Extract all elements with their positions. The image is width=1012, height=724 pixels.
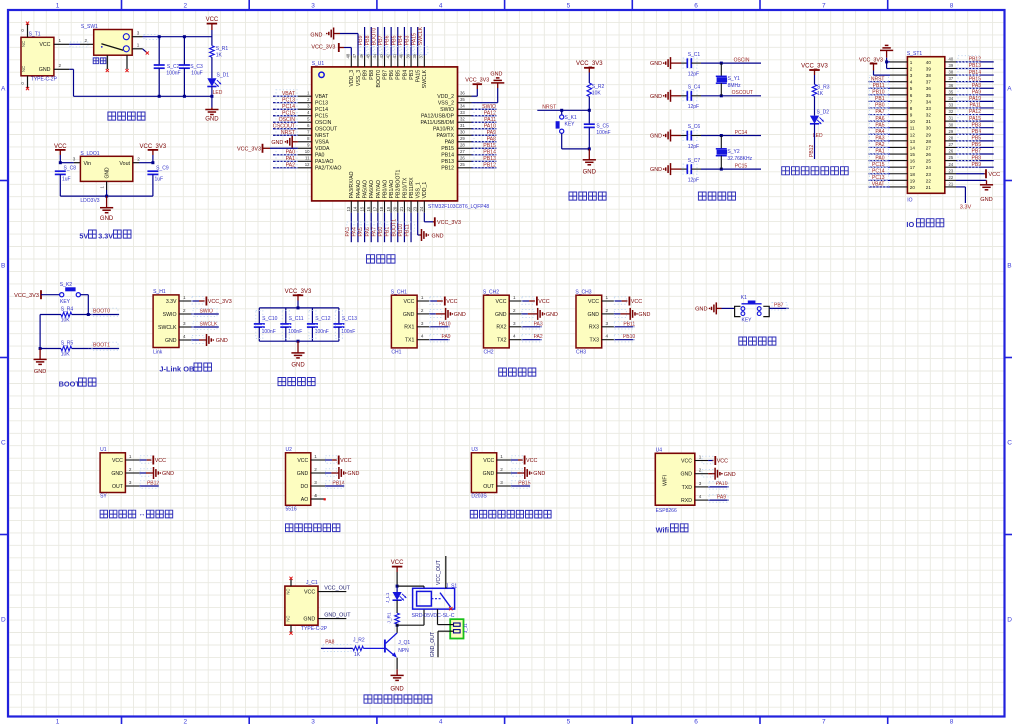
svg-text:GND: GND (104, 167, 110, 179)
svg-text:3: 3 (910, 73, 913, 78)
svg-text:PB7: PB7 (774, 303, 784, 309)
wire T1.VCC to SW1.2 (69, 43, 80, 45)
svg-text:VCC: VCC (526, 458, 537, 464)
svg-text:33: 33 (460, 110, 465, 115)
wire K2 to BOOT0 node (81, 294, 89, 296)
svg-text:TX3: TX3 (589, 338, 599, 344)
svg-text:PB10: PB10 (398, 224, 404, 237)
transistor J_Q1 NPN (384, 640, 386, 653)
svg-text:28: 28 (460, 143, 465, 148)
svg-text:U4: U4 (656, 447, 663, 453)
svg-text:4: 4 (421, 334, 424, 339)
svg-text:GND: GND (271, 140, 283, 146)
power VCC (U2) (325, 459, 332, 461)
svg-text:34: 34 (949, 96, 954, 101)
pin J_C1 top (nc) (290, 579, 292, 586)
svg-text:C: C (1007, 440, 1012, 447)
svg-text:PB1/AO: PB1/AO (389, 180, 395, 199)
filter caps S_C10-S_C13 100nF (258, 308, 260, 324)
svg-text:21: 21 (926, 185, 932, 190)
wire T1.GND to bottom rail (69, 68, 73, 70)
U1 left pins 1-12 stubs and names (298, 95, 312, 97)
svg-text:100nF: 100nF (596, 130, 610, 136)
ground GND (U3) (511, 472, 517, 474)
svg-text:GND: GND (111, 471, 123, 477)
svg-text:2: 2 (183, 3, 187, 10)
svg-text:S_C9: S_C9 (156, 165, 169, 171)
svg-text:14: 14 (353, 206, 358, 211)
svg-text:S_C2: S_C2 (167, 64, 180, 70)
svg-text:3: 3 (311, 3, 315, 10)
svg-text:BOOT1: BOOT1 (391, 219, 397, 237)
ground GND at VSS_1 pin23 (417, 213, 419, 235)
svg-text:S_Y1: S_Y1 (728, 76, 740, 82)
svg-text:B: B (1007, 263, 1011, 270)
module U4 ESP8266 (655, 453, 695, 505)
svg-text:29: 29 (949, 129, 954, 134)
wire L1 to R1 (396, 600, 398, 613)
svg-text:PB7: PB7 (972, 149, 982, 155)
svg-text:NRST: NRST (542, 105, 557, 111)
pin T1 VCC 1 (54, 43, 69, 45)
svg-text:OUT: OUT (112, 484, 124, 490)
wire SWIO (191, 313, 219, 315)
svg-text:11: 11 (305, 156, 310, 161)
svg-text:PA7: PA7 (371, 227, 377, 237)
capacitor S_C4 12pF (681, 95, 687, 97)
svg-text:3: 3 (699, 481, 702, 486)
svg-text:38: 38 (926, 73, 932, 78)
svg-text:S_K2: S_K2 (60, 282, 72, 288)
svg-text:GND: GND (347, 471, 359, 477)
svg-text:SWCLK: SWCLK (200, 321, 218, 327)
svg-text:10K: 10K (61, 351, 71, 357)
ground GND (reset) (588, 147, 591, 150)
svg-text:SWCLK: SWCLK (422, 69, 428, 88)
svg-text:VCC_3V3: VCC_3V3 (285, 289, 312, 295)
svg-text:4: 4 (439, 3, 443, 10)
svg-text:VCC: VCC (483, 458, 494, 464)
key K1 (735, 306, 741, 316)
svg-text:S_CH1: S_CH1 (391, 290, 407, 296)
module U2 (286, 453, 311, 506)
capacitor S_C3 10uF (183, 37, 185, 65)
svg-text:VCC: VCC (39, 42, 50, 48)
svg-text:100nF: 100nF (341, 329, 355, 335)
svg-text:CH2: CH2 (484, 350, 494, 356)
svg-text:GND: GND (680, 472, 692, 478)
wire GND_OUT to J_J1 pin2 (438, 630, 454, 632)
ST1 right net wires (956, 61, 994, 63)
svg-text:21: 21 (949, 182, 954, 187)
svg-text:PB13: PB13 (441, 159, 454, 165)
svg-text:NRST: NRST (315, 133, 330, 139)
svg-text:PA4/AO: PA4/AO (356, 180, 362, 198)
svg-text:PB11: PB11 (405, 224, 411, 236)
capacitor S_C8 1uF (55, 170, 66, 172)
svg-text:7: 7 (822, 3, 826, 10)
svg-text:30: 30 (460, 130, 465, 135)
svg-text:PA2/TX/AO: PA2/TX/AO (315, 166, 341, 172)
ground GND (ST1 pin22) (956, 179, 987, 181)
svg-text:GND: GND (165, 338, 177, 344)
svg-text:VCC_3V3: VCC_3V3 (140, 144, 167, 150)
svg-text:PA8: PA8 (445, 140, 455, 146)
svg-text:24: 24 (419, 206, 424, 211)
svg-text:PA9: PA9 (972, 90, 981, 96)
svg-text:OSCOUT: OSCOUT (732, 90, 753, 96)
svg-text:2: 2 (910, 66, 913, 71)
svg-text:23: 23 (949, 168, 954, 173)
svg-text:PA7/AO: PA7/AO (376, 180, 382, 198)
wire PB7 (769, 307, 788, 309)
wire NRST (537, 109, 589, 111)
capacitor S_C1 12pF (681, 62, 687, 64)
svg-text:22: 22 (949, 175, 954, 180)
svg-text:S_C3: S_C3 (190, 64, 203, 70)
svg-text:26: 26 (460, 156, 465, 161)
svg-text:1: 1 (606, 295, 609, 300)
svg-text:28: 28 (926, 139, 932, 144)
wire GND_OUT (318, 618, 346, 620)
svg-text:36: 36 (460, 91, 465, 96)
svg-text:2: 2 (137, 156, 140, 161)
svg-text:PB1: PB1 (385, 227, 391, 237)
wire PA9 (429, 339, 449, 341)
wire BOOT0 (87, 313, 90, 316)
svg-text:3: 3 (606, 321, 609, 326)
svg-text:KEY: KEY (742, 318, 753, 324)
svg-text:1: 1 (421, 295, 424, 300)
wire OSCOUT (701, 95, 761, 97)
wire VCC rail (143, 36, 212, 38)
svg-text:30: 30 (949, 122, 954, 127)
svg-text:GND_OUT: GND_OUT (430, 631, 436, 657)
svg-text:VCC_3V3: VCC_3V3 (465, 77, 489, 83)
module U3 (471, 453, 496, 493)
svg-text:3: 3 (137, 30, 140, 35)
svg-text:33: 33 (949, 103, 954, 108)
svg-text:2: 2 (500, 467, 503, 472)
svg-text:18: 18 (379, 206, 384, 211)
svg-text:Vin: Vin (84, 161, 92, 167)
svg-text:VCC: VCC (631, 299, 642, 305)
svg-text:PB0: PB0 (378, 227, 384, 237)
svg-text:PC14: PC14 (315, 107, 328, 113)
svg-text:PA12/USB/DP: PA12/USB/DP (421, 114, 455, 120)
svg-text:GND: GND (650, 94, 662, 100)
pin U2 AO 4 (nc) (311, 498, 324, 500)
svg-text:RXD: RXD (681, 498, 692, 504)
resistor S_R1 1K (210, 46, 215, 58)
svg-text:PB7: PB7 (382, 70, 388, 80)
svg-text:KEY: KEY (565, 121, 576, 127)
crystal S_Y1 8MHz (720, 62, 723, 65)
sheet zone ticks and numbers (121, 0, 123, 10)
svg-text:VCC_OUT: VCC_OUT (324, 586, 350, 592)
svg-text:AO: AO (301, 497, 309, 503)
svg-text:PC13: PC13 (315, 101, 328, 107)
svg-text:OSCOUT: OSCOUT (315, 127, 338, 133)
svg-text:PB4: PB4 (402, 70, 408, 80)
svg-text:26: 26 (949, 149, 954, 154)
svg-text:TYPE-C-2P: TYPE-C-2P (31, 77, 58, 83)
svg-text:13: 13 (346, 206, 351, 211)
svg-text:D: D (1007, 617, 1012, 624)
svg-text:SWIO: SWIO (200, 308, 213, 314)
svg-text:J-Link OB: J-Link OB (159, 365, 194, 374)
svg-text:GND: GND (533, 471, 545, 477)
LED S_D1 (207, 78, 216, 86)
svg-text:2: 2 (606, 308, 609, 313)
svg-text:PA6: PA6 (365, 227, 371, 237)
svg-text:Wifi: Wifi (656, 525, 669, 534)
svg-text:VSSA: VSSA (315, 140, 329, 146)
svg-text:VCC_3V3: VCC_3V3 (14, 293, 39, 299)
ground GND (S_CH1) (429, 313, 436, 315)
svg-text:PB9: PB9 (358, 35, 364, 45)
svg-text:17: 17 (910, 165, 916, 170)
svg-text:J_J1: J_J1 (463, 623, 468, 633)
svg-text:GND_OUT: GND_OUT (324, 613, 351, 619)
svg-text:100nF: 100nF (262, 329, 276, 335)
svg-text:VCC: VCC (340, 458, 351, 464)
wire PB11 (614, 326, 634, 328)
pin SW1 1 (nc) (132, 48, 142, 50)
svg-text:25: 25 (926, 159, 932, 164)
ground GND (U2) (325, 472, 331, 474)
svg-text:35: 35 (949, 89, 954, 94)
net 3.3V (ST1 pin21) (956, 186, 965, 188)
svg-text:BOOT0: BOOT0 (371, 28, 377, 46)
svg-text:PB3: PB3 (972, 122, 982, 128)
svg-text:GND: GND (390, 686, 404, 692)
svg-text:↔: ↔ (139, 511, 146, 518)
LED J_L1 (396, 586, 398, 592)
svg-text:12pF: 12pF (688, 178, 699, 184)
connector S_CH3 (576, 295, 602, 348)
svg-text:12: 12 (910, 132, 916, 137)
svg-text:5516: 5516 (286, 507, 297, 513)
svg-text:VCC: VCC (681, 458, 692, 464)
svg-text:1: 1 (137, 43, 140, 48)
svg-text:4: 4 (183, 334, 186, 339)
svg-text:S_R1: S_R1 (216, 46, 229, 52)
svg-text:S_R2: S_R2 (592, 84, 605, 90)
svg-text:PA9: PA9 (717, 494, 726, 500)
svg-text:GND: GND (310, 33, 322, 39)
svg-text:S_C10: S_C10 (262, 316, 278, 322)
title 晶振电路 (698, 192, 735, 200)
svg-text:PA15: PA15 (411, 33, 417, 45)
svg-text:PA10: PA10 (716, 481, 728, 487)
svg-text:BOOT: BOOT (59, 380, 81, 389)
svg-text:1: 1 (500, 454, 503, 459)
power VCC (ST1 pin23) (956, 173, 984, 175)
svg-text:PA3: PA3 (534, 321, 543, 327)
svg-text:34: 34 (926, 99, 932, 104)
svg-text:S_C7: S_C7 (688, 158, 701, 164)
svg-text:20: 20 (392, 206, 397, 211)
svg-text:S_D2: S_D2 (817, 109, 830, 115)
svg-text:25: 25 (949, 155, 954, 160)
bottom rail to GND (60, 195, 153, 197)
svg-text:3.3V: 3.3V (166, 299, 177, 305)
resistor S_R3 1K (812, 84, 817, 96)
svg-text:ESP8266: ESP8266 (656, 508, 677, 514)
connector J_J1 (450, 619, 463, 638)
wire D2 to PB12 (814, 124, 816, 159)
svg-text:VDD_2: VDD_2 (437, 94, 454, 100)
svg-text:VCC_OUT: VCC_OUT (436, 559, 442, 585)
svg-text:S_R5: S_R5 (61, 341, 74, 347)
svg-text:LDO3V3: LDO3V3 (80, 198, 99, 204)
junction (158, 35, 161, 38)
svg-text:TX1: TX1 (405, 338, 415, 344)
svg-text:4: 4 (314, 493, 317, 498)
svg-text:KEY: KEY (60, 299, 71, 305)
svg-text:WIFI: WIFI (663, 475, 669, 486)
wire R3 to D2 (814, 96, 816, 115)
title 按键电路 (739, 337, 776, 345)
wire GND to K1 (722, 307, 735, 309)
svg-text:27: 27 (949, 142, 954, 147)
svg-text:D203S: D203S (471, 494, 487, 500)
svg-text:J_C1: J_C1 (306, 580, 318, 586)
svg-text:11: 11 (910, 126, 915, 131)
svg-text:GND: GND (587, 312, 599, 318)
svg-text:100nF: 100nF (166, 71, 180, 77)
svg-text:PB8: PB8 (369, 70, 375, 80)
svg-text:GND: GND (980, 197, 992, 203)
label SW1 value 开关 (93, 58, 106, 64)
title 主芯片 (367, 255, 396, 263)
svg-text:S_U1: S_U1 (312, 61, 325, 67)
svg-text:2: 2 (421, 308, 424, 313)
svg-text:10uF: 10uF (191, 71, 202, 77)
svg-text:2: 2 (314, 467, 317, 472)
wire PA10 (wifi tx) (708, 486, 729, 488)
power VCC (U1) (140, 459, 147, 461)
svg-text:28: 28 (949, 135, 954, 140)
power VCC (U3) (511, 459, 518, 461)
title 程序运行指示灯 (782, 167, 849, 175)
mcu S_U1 STM32F103C8T6_LQFP48 (312, 67, 458, 201)
svg-text:32: 32 (926, 113, 932, 118)
svg-text:GND: GND (495, 312, 507, 318)
svg-text:IO: IO (907, 197, 912, 203)
svg-text:S_R4: S_R4 (61, 307, 74, 313)
svg-text:31: 31 (926, 119, 932, 124)
svg-text:OSCIN: OSCIN (315, 120, 332, 126)
svg-text:VCC: VCC (588, 299, 599, 305)
ground GND (ST1 pins 1,2) (880, 49, 893, 51)
svg-text:GND: GND (100, 216, 114, 222)
svg-text:SWCLK: SWCLK (158, 325, 177, 331)
connector S_T1 (TYPE-C-2P) (21, 37, 54, 76)
wire VCC to relay coil (396, 585, 399, 588)
svg-text:S_LDO1: S_LDO1 (80, 151, 99, 157)
svg-text:VCC: VCC (155, 458, 166, 464)
svg-text:PA10/RX: PA10/RX (433, 127, 454, 133)
svg-text:S_CH3: S_CH3 (575, 290, 591, 296)
svg-text:14: 14 (910, 145, 916, 150)
svg-text:VCC_3V3: VCC_3V3 (437, 220, 461, 226)
wire VCC to LDO Vin (60, 162, 74, 164)
ground GND (U1) (140, 472, 146, 474)
svg-text:48: 48 (346, 53, 351, 58)
wire PB14 (325, 485, 344, 487)
svg-text:1: 1 (129, 454, 132, 459)
svg-text:DO: DO (301, 484, 309, 490)
svg-text:VCC: VCC (304, 590, 315, 596)
svg-text:24: 24 (949, 162, 954, 167)
svg-text:GND: GND (638, 312, 650, 318)
svg-text:PB0/AO: PB0/AO (382, 180, 388, 199)
key S_K1 (561, 110, 563, 115)
svg-text:16: 16 (910, 159, 916, 164)
svg-text:BOOT0: BOOT0 (376, 70, 382, 88)
svg-text:BOOT0: BOOT0 (93, 309, 110, 315)
svg-text:PA3: PA3 (345, 227, 351, 237)
svg-text:13: 13 (910, 139, 916, 144)
svg-text:RX1: RX1 (404, 325, 414, 331)
regulator S_LDO1 (80, 156, 132, 181)
svg-text:PB8: PB8 (365, 35, 371, 45)
svg-text:GND: GND (724, 472, 736, 478)
svg-text:4: 4 (910, 80, 913, 85)
wire D1 to GND (211, 87, 213, 108)
svg-text:PB8: PB8 (972, 155, 982, 161)
node collector (396, 624, 399, 627)
svg-text:1: 1 (183, 295, 186, 300)
title 滤波电路 (278, 378, 315, 386)
capacitor S_C6 12pF (681, 135, 687, 137)
svg-text:PA1/AO: PA1/AO (315, 159, 333, 165)
wire PB12 (140, 485, 159, 487)
svg-text:1uF: 1uF (155, 177, 164, 183)
svg-text:PA4: PA4 (352, 227, 358, 237)
svg-text:100nF: 100nF (315, 329, 329, 335)
resistor J_R1 (395, 613, 400, 624)
svg-text:2: 2 (129, 467, 132, 472)
svg-text:1: 1 (314, 454, 317, 459)
svg-text:10: 10 (305, 149, 310, 154)
wire PC14 (701, 135, 761, 137)
svg-text:GND: GND (291, 362, 305, 368)
svg-text:GND: GND (483, 471, 495, 477)
power VCC_3V3 (jlink pin1) (191, 300, 199, 302)
power VCC (S_CH2) (521, 300, 529, 302)
power VCC (S_CH1) (429, 300, 437, 302)
svg-text:1: 1 (513, 295, 516, 300)
svg-text:24: 24 (926, 165, 932, 170)
wire coil return (397, 624, 424, 626)
pin T1 GND 2 (54, 68, 69, 70)
svg-text:GND: GND (695, 307, 707, 313)
svg-text:U1: U1 (100, 447, 107, 453)
svg-text:31: 31 (460, 123, 465, 128)
svg-text:VCC: VCC (717, 459, 728, 465)
wire OSCIN (701, 62, 761, 64)
svg-text:16: 16 (366, 206, 371, 211)
wire emitter to GND (396, 658, 398, 670)
svg-text:PA9: PA9 (442, 334, 451, 340)
svg-text:5: 5 (910, 86, 913, 91)
svg-text:10K: 10K (61, 317, 71, 323)
connector S_H1 (J-Link) (153, 295, 179, 348)
svg-text:20: 20 (910, 185, 916, 190)
